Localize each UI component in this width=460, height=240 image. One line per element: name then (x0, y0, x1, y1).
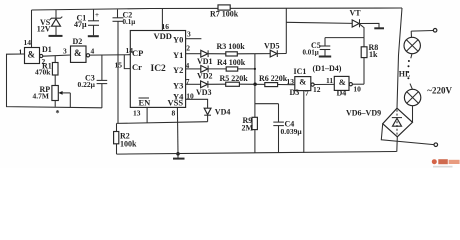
svg-text:VDD: VDD (154, 31, 172, 41)
resistor R5 220k (220, 74, 265, 86)
svg-text:47μ: 47μ (74, 20, 87, 29)
diode VD3 (196, 81, 226, 97)
svg-text:0.22μ: 0.22μ (78, 80, 96, 89)
svg-text:10: 10 (186, 91, 194, 100)
wire D4 out up to R8 (352, 83, 364, 85)
wire Cr link vertical (124, 55, 130, 69)
svg-text:3: 3 (187, 30, 191, 39)
IC2 box (130, 31, 185, 108)
pin 10 wire to VD4 (186, 91, 208, 108)
svg-text:0.01μ: 0.01μ (303, 49, 319, 57)
wire D2 output to IC2 CP (90, 54, 131, 56)
diode VD1 (197, 50, 226, 66)
capacitor C3 0.22u (78, 55, 108, 108)
svg-text:13: 13 (287, 77, 295, 86)
resistor R3 100k (217, 42, 255, 56)
svg-text:0.039μ: 0.039μ (281, 127, 303, 136)
wire right branch rail to bridge (397, 8, 402, 108)
wire EN/R2 horizontal to VD4 (117, 122, 208, 124)
ground bar below VS (49, 35, 63, 37)
svg-text:Y2: Y2 (173, 65, 183, 75)
svg-text:&: & (299, 77, 306, 87)
svg-text:16: 16 (162, 22, 170, 31)
wire C2 bottom vertical node A (to D2 out / CP / R2 line) (117, 21, 119, 123)
wire D1 output to D2 (43, 55, 71, 56)
label ~220V (427, 86, 452, 96)
svg-text:470k: 470k (35, 68, 51, 77)
label (D1-D4) (313, 64, 342, 73)
svg-text:1k: 1k (369, 50, 378, 59)
resistor R1 470k (35, 56, 58, 77)
capacitor C5 0.01u (303, 38, 365, 57)
resistor R2 100k (114, 123, 137, 154)
svg-text:Cr: Cr (132, 62, 142, 72)
ground stub right of VT (360, 23, 385, 28)
wire D3 pin7 to ground rail (303, 91, 305, 153)
junction VSS-ground (176, 152, 180, 156)
svg-text:10: 10 (353, 85, 361, 94)
svg-text:+: + (95, 11, 99, 19)
wire bridge left vertex to bottom terminal (381, 124, 437, 147)
svg-text:14: 14 (24, 38, 32, 47)
svg-text:VSS: VSS (168, 98, 184, 108)
lamp HL1 (404, 31, 420, 54)
thyristor VT (350, 9, 365, 38)
diode VD4 (pointing down) (204, 107, 230, 121)
svg-text:VT: VT (350, 9, 362, 18)
svg-text:IC2: IC2 (151, 64, 167, 74)
svg-text:(D1–D4): (D1–D4) (313, 64, 342, 73)
svg-text:R6 220k: R6 220k (259, 74, 288, 83)
svg-text:VD5: VD5 (264, 42, 280, 51)
svg-text:Y0: Y0 (173, 35, 183, 45)
pin 8 VSS (172, 107, 179, 153)
svg-text:R5 220k: R5 220k (220, 74, 249, 83)
svg-text:12: 12 (313, 85, 321, 94)
pin 15 Cr label (115, 61, 123, 70)
capacitor C2 0.1u (113, 9, 136, 26)
label HL and dotted lamp chain (399, 54, 413, 90)
svg-text:D4: D4 (337, 88, 347, 97)
pin 4 wire (186, 61, 201, 70)
svg-text:EN: EN (139, 98, 152, 108)
svg-text:11: 11 (326, 76, 333, 85)
capacitor C1 47u (74, 10, 99, 36)
nand gate D3 (287, 77, 321, 98)
wire VT row (286, 22, 352, 23)
pin 3 Y0 stub (186, 30, 202, 39)
node bus junctions (253, 54, 256, 86)
svg-text:14: 14 (126, 46, 134, 55)
svg-text:VD4: VD4 (215, 107, 231, 116)
resistor R4 100k (217, 58, 255, 71)
resistor R6 220k (259, 74, 295, 87)
svg-text:3: 3 (63, 47, 67, 56)
svg-text:7: 7 (186, 77, 190, 86)
svg-text:13: 13 (133, 109, 141, 118)
svg-text:Y1: Y1 (173, 50, 183, 60)
svg-text:D1: D1 (42, 45, 52, 54)
pin 14 CP label (126, 46, 134, 55)
potentiometer RP 4.7M (33, 75, 71, 107)
bridge rectifier VD6-VD9 (346, 108, 413, 137)
svg-text:&: & (339, 77, 346, 87)
ground bar below C1 (88, 35, 99, 37)
svg-text:15: 15 (115, 61, 123, 70)
svg-text:VD3: VD3 (196, 88, 212, 97)
svg-text:Y3: Y3 (173, 81, 183, 91)
resistor R8 1k (361, 38, 378, 85)
pin 13 EN (133, 107, 147, 123)
zener diode VS 12V (37, 10, 63, 35)
svg-text:4: 4 (91, 47, 95, 56)
diode VD5 (255, 42, 286, 58)
nand gate D2 (63, 37, 95, 62)
svg-text:D2: D2 (73, 37, 83, 46)
diode VD2 (197, 66, 226, 81)
resistor R9 2M (242, 84, 258, 153)
pin 16 VDD (162, 8, 170, 31)
svg-text:IC1: IC1 (294, 67, 307, 76)
wire bridge bottom vertex to ground rail (396, 137, 399, 152)
label IC1 (294, 67, 307, 76)
svg-text:2: 2 (186, 44, 190, 53)
pin 7 wire (186, 77, 201, 86)
svg-text:CP: CP (132, 48, 143, 58)
node asterisk mark (56, 109, 60, 118)
svg-text:VD2: VD2 (197, 72, 213, 81)
svg-text:2M: 2M (242, 123, 254, 132)
watermark (432, 159, 460, 167)
capacitor C4 0.039u (255, 104, 302, 153)
svg-text:VD1: VD1 (197, 57, 213, 66)
pin 2 wire (186, 44, 201, 54)
resistor R7 100k (210, 5, 239, 19)
wire left vertical to D1 pin14 (24, 10, 32, 48)
wire bottom ground rail (117, 152, 397, 155)
svg-text:12V: 12V (37, 25, 51, 34)
lamp HL2 (404, 89, 420, 122)
svg-text:&: & (28, 50, 36, 60)
svg-text:&: & (74, 48, 82, 58)
svg-text:R7 100k: R7 100k (210, 10, 239, 19)
svg-text:VD6–VD9: VD6–VD9 (346, 109, 381, 118)
svg-text:HL: HL (399, 69, 411, 78)
svg-text:4.7M: 4.7M (33, 91, 49, 100)
wire VD5 vertical to top rail (285, 8, 287, 53)
wire top +12V rail (32, 8, 403, 10)
svg-text:7: 7 (305, 89, 309, 98)
svg-text:100k: 100k (120, 140, 137, 149)
svg-text:R3 100k: R3 100k (217, 42, 246, 51)
svg-text:0.1μ: 0.1μ (123, 18, 136, 26)
wire D3 out to D4 (314, 76, 334, 85)
ground symbol main (173, 154, 185, 159)
wire D1 input from left loop (7, 54, 102, 108)
nand gate D1 (19, 45, 52, 66)
wire to top terminal (411, 29, 437, 33)
svg-text:R4 100k: R4 100k (217, 58, 246, 67)
svg-text:*: * (56, 109, 60, 118)
nand gate D4 (334, 76, 361, 97)
svg-text:1: 1 (19, 48, 23, 57)
svg-text:8: 8 (172, 109, 176, 118)
svg-text:4: 4 (186, 61, 190, 70)
svg-text:~220V: ~220V (427, 86, 452, 96)
ground bar below C5 (319, 56, 331, 58)
svg-text:D3: D3 (290, 88, 300, 97)
